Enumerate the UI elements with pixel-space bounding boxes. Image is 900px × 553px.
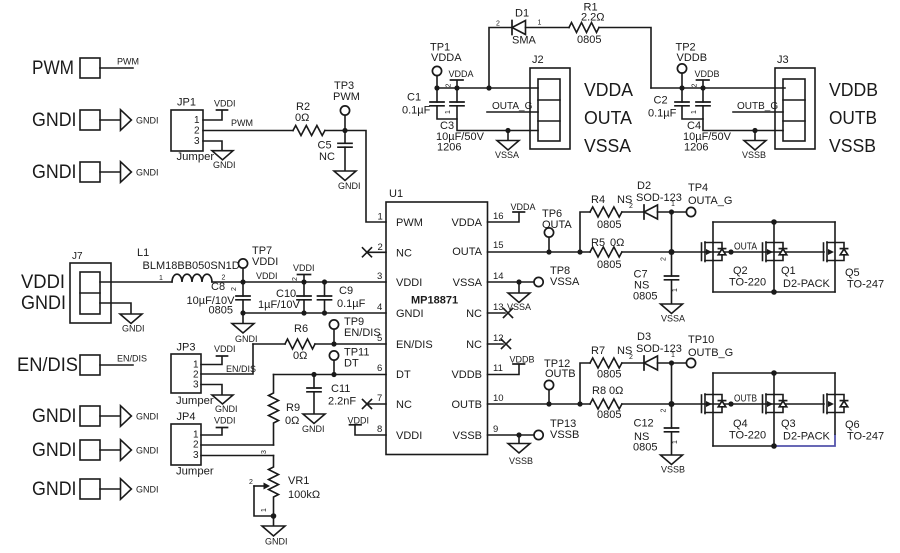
svg-text:1: 1 (538, 20, 542, 27)
testpoint TP10 circle (686, 358, 695, 367)
svg-text:14: 14 (493, 271, 504, 282)
capacitor C2 stub top (681, 88, 683, 102)
svg-text:3: 3 (193, 450, 199, 461)
capacitor C8 top stub (242, 282, 244, 296)
wire top rail drains A (713, 221, 835, 223)
svg-text:C8: C8 (211, 281, 225, 293)
node junction Q1 drain (771, 219, 777, 225)
wire bottom rail sources B right blue (774, 434, 835, 446)
node junction TP4 (669, 209, 674, 214)
jumper JP1 box (171, 110, 203, 151)
wire C5 to ground (344, 147, 346, 171)
wire D2 to TP4 (658, 211, 687, 213)
pin 7 NC stub (367, 403, 386, 405)
svg-text:BLM18BB050SN1D: BLM18BB050SN1D (143, 260, 240, 272)
svg-text:0805: 0805 (633, 291, 657, 303)
node junction TP11 (331, 372, 336, 377)
wire VDDA rail to D1 branch (489, 28, 512, 89)
svg-text:DT: DT (396, 369, 411, 381)
svg-text:Q1: Q1 (781, 265, 796, 277)
testpoint TP12 stub (548, 390, 550, 405)
resistor R2 (293, 126, 325, 136)
svg-text:2: 2 (378, 242, 383, 253)
diode D2 cathode bar (643, 205, 645, 219)
node junction C8 bottom (240, 310, 245, 315)
node junction TP9 (331, 341, 336, 346)
capacitor C11 top stub (313, 375, 315, 389)
wire JP3 pin1 to VDDI (201, 357, 222, 365)
svg-text:D2: D2 (637, 180, 651, 192)
svg-text:OUTB: OUTB (545, 368, 576, 380)
power VDDI bar at JP4 (217, 427, 228, 429)
svg-text:GNDI: GNDI (21, 292, 66, 314)
svg-text:0Ω: 0Ω (293, 350, 307, 362)
ground GNDI under C11 (303, 414, 325, 424)
svg-text:Jumper: Jumper (176, 395, 214, 407)
wire pin 11 VDDB power (488, 365, 520, 375)
svg-text:OUTA: OUTA (734, 242, 757, 253)
svg-text:R8: R8 (592, 385, 606, 397)
wire pin9 to ground (518, 435, 520, 444)
svg-text:9: 9 (493, 424, 498, 435)
svg-text:JP1: JP1 (177, 97, 196, 109)
svg-text:NC: NC (466, 339, 482, 351)
wire pin 10 OUTB (488, 403, 591, 405)
wire JP4 pin3 to VR1 (201, 455, 274, 457)
testpoint TP9 circle (329, 320, 338, 329)
svg-text:VDDB: VDDB (451, 369, 482, 381)
wire J7 GNDI down (100, 303, 131, 314)
svg-text:GNDI: GNDI (338, 181, 361, 191)
node junction R7 branch (577, 401, 582, 406)
SEC4 vddb top (648, 42, 878, 161)
pin 2 NC stub (367, 251, 386, 253)
svg-text:VDDI: VDDI (293, 263, 315, 273)
SEC6 vddi rail (137, 245, 386, 344)
svg-text:0.1µF: 0.1µF (402, 105, 431, 117)
wire C7 to ground (671, 280, 673, 304)
svg-text:EN/DIS: EN/DIS (344, 327, 381, 339)
svg-text:2.2Ω: 2.2Ω (581, 12, 605, 24)
svg-text:GNDI: GNDI (215, 404, 238, 414)
svg-text:3: 3 (194, 136, 200, 147)
diode D3 cathode bar (643, 356, 645, 370)
SEC7 bottom middle (171, 316, 386, 547)
wire pin14 to ground (518, 282, 520, 293)
testpoint TP12 circle (544, 380, 553, 389)
svg-text:OUTA_G: OUTA_G (688, 195, 732, 207)
svg-text:0805: 0805 (597, 219, 621, 231)
wire Q2 drain/source vertical (712, 222, 714, 292)
svg-text:7: 7 (377, 393, 382, 404)
wire TP4 branch down (671, 212, 673, 252)
ground GNDI buffer triangle 5 (121, 479, 132, 500)
wire TP10 branch down (671, 363, 673, 404)
svg-text:13: 13 (493, 302, 504, 313)
ground VSSA under pin14 (508, 293, 530, 303)
ground VSSB under C12 (661, 455, 683, 465)
diode D3 triangle (644, 356, 658, 370)
wire VR1 wiper to bottom (254, 486, 274, 516)
testpoint TP2 circle (677, 64, 686, 73)
connector PWM input box (80, 58, 100, 78)
resistor R9 vertical (269, 375, 279, 446)
svg-text:GNDI: GNDI (32, 478, 77, 500)
SEC2 jp1 (171, 80, 386, 222)
potentiometer VR1 wiper arrow (254, 485, 264, 487)
ground GNDI under C8 (232, 324, 254, 334)
wire JP3 pin2 EN/DIS (201, 344, 253, 374)
wire C3 bottom to J2 pin3 (457, 119, 538, 131)
svg-text:11: 11 (493, 363, 503, 374)
resistor R6 (285, 339, 315, 349)
SEC1 left inputs (17, 57, 172, 501)
no-connect X pin 2 (363, 248, 372, 257)
svg-text:GNDI: GNDI (136, 168, 159, 178)
svg-text:OUTB_G: OUTB_G (688, 347, 733, 359)
svg-text:VDDA: VDDA (584, 80, 633, 100)
svg-text:TO-220: TO-220 (729, 430, 766, 442)
wire R5 to gates (622, 251, 824, 253)
svg-text:6: 6 (377, 363, 382, 374)
svg-text:Jumper: Jumper (176, 466, 214, 478)
capacitor C4 plates (696, 102, 710, 106)
wire pin 8 VDDI power (355, 426, 386, 436)
svg-text:0.1µF: 0.1µF (648, 108, 677, 120)
capacitor C12 plates (665, 428, 679, 432)
svg-text:MP18871: MP18871 (411, 295, 458, 307)
testpoint TP11 circle (329, 351, 338, 360)
ground VSSB triangle (744, 141, 766, 151)
wire R1 to VDDB rail (599, 28, 651, 89)
svg-text:OUTB: OUTB (734, 394, 757, 405)
testpoint TP9 stub (333, 329, 335, 344)
connector J3 outer box (775, 68, 815, 149)
node junction C11 (311, 372, 316, 377)
node junction R4 branch (577, 249, 582, 254)
svg-text:GNDI: GNDI (32, 109, 77, 131)
wire pin 16 VDDA power (488, 213, 520, 223)
svg-text:16: 16 (493, 211, 504, 222)
svg-text:1: 1 (159, 275, 163, 282)
no-connect X pin 13 (504, 309, 513, 318)
capacitor C3 plates (450, 102, 464, 106)
svg-text:PWM: PWM (32, 57, 74, 79)
svg-text:VSSB: VSSB (550, 429, 579, 441)
capacitor C9 bottom stub (324, 300, 326, 313)
svg-text:GNDI: GNDI (32, 405, 77, 427)
wire C12 to ground (671, 432, 673, 455)
wire GNDI 3 (100, 415, 120, 417)
svg-text:TP4: TP4 (688, 182, 708, 194)
svg-text:C11: C11 (331, 383, 350, 395)
svg-text:TO-247: TO-247 (847, 279, 884, 291)
svg-text:OUTB: OUTB (451, 399, 482, 411)
connector J7 divider (80, 292, 100, 294)
svg-text:C12: C12 (634, 418, 654, 430)
svg-text:2: 2 (496, 21, 500, 28)
svg-text:0Ω: 0Ω (295, 112, 309, 124)
diode D1 cathode bar (511, 21, 513, 35)
connector J7 outer box (70, 263, 111, 323)
connector GNDI input 4 box (80, 440, 100, 460)
svg-text:VSSA: VSSA (495, 150, 519, 160)
node junction VSSA (505, 128, 510, 133)
node junction pin9 (516, 432, 521, 437)
svg-text:EN/DIS: EN/DIS (396, 339, 433, 351)
svg-text:D1: D1 (515, 8, 529, 20)
connector GNDI input 3 box (80, 406, 100, 426)
capacitor C10 top stub (303, 282, 305, 296)
wire D3 to TP10 (658, 362, 687, 364)
SEC3 vdda top (402, 2, 651, 161)
node junction Q3 source (771, 443, 777, 449)
svg-text:VDDB: VDDB (829, 80, 878, 100)
connector GNDI input 2 box (80, 162, 100, 182)
svg-text:Q3: Q3 (781, 418, 796, 430)
connector J3 inner box (783, 79, 805, 141)
svg-text:8: 8 (377, 424, 382, 435)
svg-text:L1: L1 (137, 247, 149, 259)
svg-text:GNDI: GNDI (265, 537, 288, 547)
power VDDB bar pin11 (513, 363, 525, 365)
svg-text:J3: J3 (777, 54, 789, 66)
svg-text:R7: R7 (591, 345, 605, 357)
svg-text:VDDA: VDDA (431, 52, 462, 64)
ground VSSA under C7 (661, 304, 683, 314)
node junction C2 rail (679, 85, 684, 90)
svg-text:PWM: PWM (231, 118, 253, 128)
svg-text:R6: R6 (294, 323, 308, 335)
wire Q1 drain/source vertical (773, 222, 775, 292)
svg-text:VDDA: VDDA (511, 202, 536, 212)
capacitor C7 top stub (671, 252, 673, 276)
svg-text:DT: DT (344, 358, 359, 370)
svg-text:D3: D3 (637, 331, 651, 343)
wire OUTB_G to J3 pin2 (733, 111, 783, 113)
svg-text:GNDI: GNDI (136, 446, 159, 456)
svg-text:VDDB: VDDB (695, 69, 720, 79)
svg-text:1206: 1206 (684, 142, 708, 154)
capacitor C4 stub top (702, 88, 704, 102)
svg-text:OUTA_G: OUTA_G (492, 101, 533, 112)
wire to VSSB ground (754, 131, 756, 141)
capacitor C8 bottom stub (242, 300, 244, 313)
svg-text:GNDI: GNDI (136, 412, 159, 422)
ground GNDI buffer triangle 2 (121, 162, 132, 183)
svg-text:EN/DIS: EN/DIS (226, 364, 256, 374)
svg-text:D2-PACK: D2-PACK (783, 431, 831, 443)
svg-text:0805: 0805 (597, 369, 621, 381)
svg-text:VDDI: VDDI (214, 99, 236, 109)
svg-text:SOD-123: SOD-123 (636, 192, 682, 204)
wire GNDI 4 (100, 449, 120, 451)
svg-text:R4: R4 (591, 194, 605, 206)
svg-text:1: 1 (194, 115, 200, 126)
svg-text:R9: R9 (286, 402, 300, 414)
svg-text:C9: C9 (339, 285, 353, 297)
wire GNDI 5 (100, 488, 120, 490)
svg-text:VDDA: VDDA (449, 69, 474, 79)
svg-text:15: 15 (493, 240, 504, 251)
svg-text:PWM: PWM (333, 91, 360, 103)
wire R8 to gates (622, 403, 824, 405)
resistor R7 (590, 358, 622, 368)
wire JP3 pin3 to ground (201, 385, 222, 396)
svg-text:VDDA: VDDA (451, 217, 482, 229)
svg-text:VDDI: VDDI (214, 344, 236, 354)
ground GNDI buffer triangle 4 (121, 440, 132, 461)
svg-text:GNDI: GNDI (136, 485, 159, 495)
svg-text:GNDI: GNDI (32, 161, 77, 183)
wire VR1 to ground (273, 516, 275, 526)
svg-text:NC: NC (396, 399, 412, 411)
svg-text:D2-PACK: D2-PACK (783, 278, 831, 290)
svg-text:GNDI: GNDI (235, 334, 258, 344)
svg-text:3: 3 (377, 271, 382, 282)
SEC5 u1 (348, 188, 581, 466)
testpoint TP6 circle (544, 228, 553, 237)
wire Q3 drain/source vertical (773, 373, 775, 446)
capacitor C10 bottom stub (303, 300, 305, 313)
svg-text:VDDI: VDDI (21, 271, 65, 293)
svg-text:OUTA: OUTA (584, 108, 632, 128)
transistor Q5 (824, 242, 848, 262)
ground GNDI under JP3 (212, 395, 233, 404)
ground GNDI buffer triangle 1 (121, 110, 132, 131)
wire branch up to R7 (580, 363, 590, 404)
ground GNDI under JP1 (212, 151, 233, 160)
svg-text:1: 1 (691, 110, 698, 114)
wire GNDI bottom rail to pin 4 (243, 312, 386, 314)
capacitor C1 plates (430, 102, 444, 106)
svg-text:3: 3 (193, 380, 199, 391)
wire EN/DIS stub (100, 364, 133, 366)
wire PWM stub (100, 67, 133, 69)
svg-text:OUTA: OUTA (452, 246, 482, 258)
wire to VSSA ground (507, 131, 509, 141)
svg-text:GNDI: GNDI (302, 424, 325, 434)
svg-text:TP10: TP10 (688, 334, 714, 346)
wire R7 to D3 (622, 362, 644, 364)
svg-text:0805: 0805 (209, 305, 233, 317)
node junction C3 rail (454, 85, 459, 90)
ground VSSB under pin9 (508, 444, 530, 454)
node junction C1 rail (434, 85, 439, 90)
svg-text:GNDI: GNDI (122, 324, 145, 334)
svg-text:1: 1 (672, 288, 679, 292)
testpoint TP4 circle (686, 207, 695, 216)
wire D1 to R1 (526, 27, 570, 29)
wire R6 to U1 pin5 (315, 343, 386, 345)
capacitor C9 top stub (324, 282, 326, 296)
node junction VR1 bottom (271, 513, 277, 519)
svg-text:PWM: PWM (117, 57, 139, 67)
no-connect X pin 7 (363, 400, 372, 409)
diode D2 triangle (644, 205, 658, 219)
svg-text:PWM: PWM (396, 217, 423, 229)
svg-text:Jumper: Jumper (177, 151, 215, 163)
svg-text:1: 1 (671, 201, 675, 208)
svg-text:0Ω: 0Ω (285, 415, 299, 427)
ground GNDI under VR1 (262, 526, 285, 536)
svg-text:JP4: JP4 (177, 411, 196, 423)
wire TP2 to rail (681, 73, 683, 88)
svg-text:2: 2 (292, 277, 299, 281)
wire C1 C3 bottoms (437, 106, 457, 119)
wire TP1 to rail (436, 76, 438, 88)
node junction C10 top (301, 279, 306, 284)
node junction C9 bottom (322, 310, 327, 315)
svg-text:VR1: VR1 (288, 475, 309, 487)
ground GNDI under J7 (120, 314, 142, 324)
wire GNDI 1 (100, 119, 120, 121)
wire top rail drains B (713, 372, 835, 374)
SEC8 outa right (488, 180, 885, 324)
svg-text:VSSB: VSSB (453, 430, 482, 442)
svg-text:GNDI: GNDI (213, 160, 236, 170)
wire VDDB rail (651, 87, 785, 89)
svg-text:0Ω: 0Ω (609, 385, 623, 397)
connector GNDI input 1 box (80, 110, 100, 130)
connector J2 outer box (530, 68, 570, 149)
potentiometer VR1 body (269, 456, 279, 517)
wire DT row to U1 pin6 (274, 374, 387, 376)
resistor R5 (590, 247, 622, 257)
wire JP1 pin3 to ground (203, 141, 222, 152)
wire JP1 pin2 PWM to R2 (203, 130, 293, 132)
capacitor C7 plates (665, 276, 679, 280)
wire pin 15 OUTA (488, 251, 591, 253)
svg-text:100kΩ: 100kΩ (288, 489, 320, 501)
svg-text:1: 1 (261, 508, 268, 512)
wire Q6 drain/source vertical (834, 373, 836, 434)
svg-text:NC: NC (396, 248, 412, 260)
resistor R6 left wire (253, 343, 285, 345)
transistor Q4 (702, 394, 726, 414)
svg-text:1206: 1206 (437, 142, 461, 154)
svg-text:VSSB: VSSB (661, 465, 685, 475)
node junction TP7/C8 (240, 279, 245, 284)
ground VSSA triangle (497, 141, 519, 151)
svg-text:2.2nF: 2.2nF (328, 396, 356, 408)
resistor R1 (569, 23, 599, 33)
capacitor C10 plates (297, 296, 311, 300)
svg-text:0805: 0805 (597, 409, 621, 421)
svg-text:VDDI: VDDI (252, 256, 278, 268)
svg-text:1: 1 (671, 352, 675, 359)
node junction C10 bottom (301, 310, 306, 315)
connector J7 inner box (80, 272, 100, 314)
svg-text:VSSB: VSSB (509, 456, 533, 466)
wire VDDI rail to U1 pin 3 (212, 281, 386, 283)
svg-text:Q5: Q5 (845, 267, 860, 279)
wire OUTA_G to J2 pin2 (487, 111, 538, 113)
wire JP1 pin1 to VDDI (203, 111, 222, 121)
testpoint TP13 circle (534, 430, 543, 439)
svg-text:U1: U1 (389, 188, 403, 200)
svg-text:1µF/10V: 1µF/10V (258, 299, 300, 311)
wire R2 to U1 pin1 (325, 131, 386, 223)
svg-text:VSSB: VSSB (742, 150, 766, 160)
wire bottom rail sources A (713, 291, 835, 293)
svg-text:1: 1 (672, 440, 679, 444)
transistor Q3 (763, 394, 787, 414)
power VDDI bar at JP3 (217, 355, 228, 357)
no-connect X pin 12 (502, 340, 511, 349)
testpoint TP7 circle (238, 259, 247, 268)
wire R4 to D2 (622, 211, 644, 213)
